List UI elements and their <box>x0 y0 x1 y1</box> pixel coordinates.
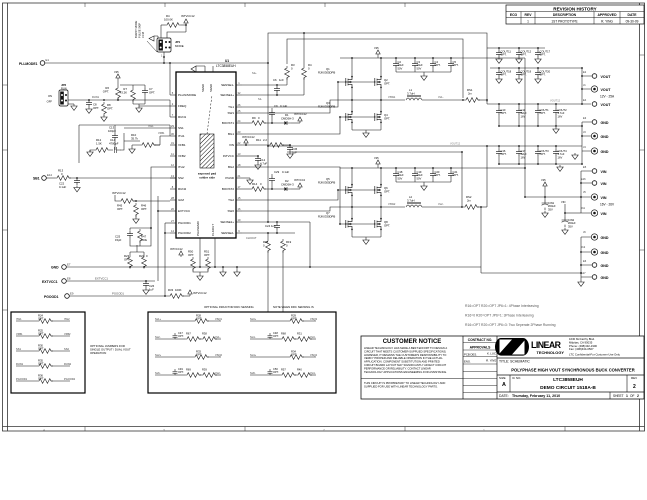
terminal E4 VOUT <box>592 102 597 107</box>
svg-text:OPT.: OPT. <box>384 116 390 120</box>
ground COUT11 <box>496 57 502 63</box>
svg-text:OPT.: OPT. <box>107 106 113 110</box>
wire output top bus A <box>463 47 545 49</box>
svg-text:INTVCC12: INTVCC12 <box>193 291 207 295</box>
ground COUT19 <box>516 77 522 83</box>
svg-text:1.5K: 1.5K <box>96 142 102 146</box>
svg-text:OPT.: OPT. <box>178 334 184 338</box>
svg-text:R16=OPT R20=OPT JP6=1: 4Phase: R16=OPT R20=OPT JP6=1: 4Phase Interleavi… <box>465 304 539 308</box>
svg-text:BOOST2: BOOST2 <box>222 187 235 191</box>
svg-text:16V: 16V <box>521 114 526 118</box>
svg-text:1: 1 <box>527 20 529 24</box>
ground SGND arrow at IC top <box>191 66 205 72</box>
svg-text:ON: ON <box>48 94 52 98</box>
svg-text:PGOOD1: PGOOD1 <box>112 292 124 296</box>
node V25 arrow ph2 <box>376 160 380 166</box>
svg-text:J12: J12 <box>581 245 586 249</box>
svg-text:1uF: 1uF <box>149 287 154 291</box>
zone ticks bottom <box>85 427 565 432</box>
svg-text:16V: 16V <box>558 114 563 118</box>
wire ph2 sense verticals <box>462 152 581 273</box>
svg-text:INTVCC2: INTVCC2 <box>294 178 306 182</box>
wire ITH1 comp loop <box>79 125 170 163</box>
wire VIN terminal bus <box>581 171 592 213</box>
terminal E2 VOUT <box>592 74 597 79</box>
capacitor COUT2 <box>553 108 559 115</box>
svg-text:MODE: MODE <box>175 44 184 48</box>
svg-text:E4: E4 <box>583 98 587 102</box>
svg-text:OPT.: OPT. <box>501 111 507 115</box>
svg-text:VL1-: VL1- <box>215 335 221 339</box>
svg-text:OPT.: OPT. <box>291 317 297 321</box>
svg-text:BURST MODE: BURST MODE <box>134 20 138 38</box>
svg-text:GND: GND <box>601 135 609 139</box>
svg-text:E6: E6 <box>583 259 587 263</box>
svg-text:E3: E3 <box>583 116 587 120</box>
zone ticks left <box>3 85 8 310</box>
svg-text:VOUT12: VOUT12 <box>550 99 561 103</box>
svg-text:Fax: (408)434-0507: Fax: (408)434-0507 <box>569 347 594 351</box>
wire cap gnd bus ph2 <box>396 182 451 184</box>
capacitor COUT4 <box>553 149 559 156</box>
wire VOUT terminal bus <box>582 68 592 104</box>
svg-text:OPT.: OPT. <box>93 106 99 110</box>
wire VIN pin <box>242 144 268 146</box>
pin 13 INTVCC <box>236 155 242 157</box>
ground COUT20 <box>535 77 541 83</box>
svg-text:BOOST1: BOOST1 <box>222 121 235 125</box>
pin 20 EXTVCC <box>170 210 176 212</box>
pin 1 SENSE1- <box>236 84 242 86</box>
approvals column <box>496 336 498 399</box>
pin 27 PGOOD1 <box>170 222 176 224</box>
resistor R68 dcr row <box>270 338 280 340</box>
wire FREQ net <box>120 85 145 106</box>
svg-text:1: 1 <box>626 394 628 398</box>
svg-text:2: 2 <box>637 394 639 398</box>
capacitor C19 <box>412 171 418 178</box>
pin 14 PGOOD2 <box>170 232 176 234</box>
LT logo <box>495 338 529 356</box>
svg-text:APPLICATION. COMPONENT SUBSTIT: APPLICATION. COMPONENT SUBSTITUTION AND … <box>364 360 440 364</box>
svg-text:VL1-: VL1- <box>438 95 444 99</box>
capacitor C10 <box>496 108 502 115</box>
node INTVCC2 for D2 <box>298 183 302 189</box>
terminal J4 GND <box>591 148 597 154</box>
svg-text:VOUT: VOUT <box>601 75 612 79</box>
capacitor C18 <box>393 171 399 178</box>
svg-text:V25: V25 <box>374 46 379 50</box>
node INTVCC12 <box>188 290 192 296</box>
svg-text:REV: REV <box>631 376 637 380</box>
svg-text:CONTRACT NO.: CONTRACT NO. <box>468 338 493 342</box>
zone ticks right <box>640 55 645 340</box>
wire cap bank2 gnd bus <box>499 163 582 165</box>
svg-text:ILIM: ILIM <box>178 198 184 202</box>
ground PGND <box>247 178 253 184</box>
wire GND2 terminal bus <box>581 237 592 277</box>
terminal J3 GND <box>591 133 597 139</box>
sheet border inner bottom <box>3 426 645 428</box>
terminal E6 GND <box>592 263 597 268</box>
svg-text:OPT.: OPT. <box>540 152 546 156</box>
capacitor COUT20 OPT <box>535 70 541 77</box>
capacitor C21 <box>448 171 454 178</box>
svg-text:R. YING: R. YING <box>601 20 613 24</box>
ground fets ph1 <box>363 131 369 137</box>
connector JP1 MODE <box>157 38 171 52</box>
svg-text:CMDSH-3: CMDSH-3 <box>281 182 294 186</box>
svg-text:CLKOUT: CLKOUT <box>211 224 215 236</box>
ground fets ph2 <box>363 238 369 244</box>
pin 13 SS2 <box>170 177 176 179</box>
wire RS2 out <box>477 206 487 208</box>
svg-text:SS1: SS1 <box>16 347 21 351</box>
pin 22 VIN <box>236 144 242 146</box>
svg-text:SL2-: SL2- <box>155 335 161 339</box>
box optional jumpers <box>11 312 85 393</box>
svg-text:TECHNOLOGY APPLICATIONS ENGINE: TECHNOLOGY APPLICATIONS ENGINEERING FOR … <box>364 370 447 374</box>
pin 7 RUN1 <box>170 116 176 118</box>
ground GND2 bus <box>580 277 582 280</box>
pin 31 VFB1 <box>170 144 176 146</box>
ground open arrow JP1 <box>149 36 158 41</box>
svg-text:INTVCC12: INTVCC12 <box>181 14 195 18</box>
svg-text:OPERATION: OPERATION <box>90 351 106 355</box>
ground below R7/C7 <box>136 106 142 112</box>
svg-text:SUPPLIED FOR USE WITH LINEAR T: SUPPLIED FOR USE WITH LINEAR TECHNOLOGY … <box>364 384 438 388</box>
pin 5 PLLIN/MODE <box>170 94 176 96</box>
svg-text:VL3-: VL3- <box>310 335 316 339</box>
svg-text:RJK0305DPB: RJK0305DPB <box>318 180 335 184</box>
svg-text:C29: C29 <box>274 170 280 174</box>
svg-text:POLYPHASE HIGH VOUT SYNCHRONOU: POLYPHASE HIGH VOUT SYNCHRONOUS BUCK CON… <box>511 368 634 373</box>
resistor R57 dcr row <box>270 374 280 376</box>
svg-text:DATE:: DATE: <box>499 394 509 398</box>
svg-text:solder side: solder side <box>199 176 215 180</box>
svg-text:BG2: BG2 <box>228 165 234 169</box>
svg-text:ECO: ECO <box>510 13 518 17</box>
svg-text:PCB DES.: PCB DES. <box>464 352 477 356</box>
svg-text:OPT.: OPT. <box>521 53 527 57</box>
wire SB1 to SS2 <box>69 177 176 179</box>
svg-text:VIN: VIN <box>601 170 607 174</box>
SECTION: left inputs <box>19 14 268 121</box>
wire TG1 gates <box>242 82 375 107</box>
pin 28 ILIM <box>170 199 176 201</box>
svg-text:PGND: PGND <box>225 176 235 180</box>
svg-text:R16=0 R20=OPT JP6=1: 3Phase In: R16=0 R20=OPT JP6=1: 3Phase Interleaving <box>465 314 534 318</box>
sheet border inner right <box>639 3 641 431</box>
svg-text:RUN2: RUN2 <box>178 187 186 191</box>
capacitor C20 <box>430 171 436 178</box>
ground below R8 <box>101 115 107 121</box>
capacitor C4 <box>430 61 436 68</box>
svg-text:INTVCC12: INTVCC12 <box>242 135 255 139</box>
svg-text:SENSE1-: SENSE1- <box>221 83 234 87</box>
svg-text:35.7k: 35.7k <box>131 137 138 141</box>
svg-text:RJK0330DPB: RJK0330DPB <box>318 214 335 218</box>
wire L2 to RS2 <box>422 206 462 208</box>
pin 11 VFB2 <box>170 155 176 157</box>
svg-text:OPTIONAL INDUCTOR DRC SENSING: OPTIONAL INDUCTOR DRC SENSING <box>204 305 254 309</box>
svg-text:OPT.: OPT. <box>540 111 546 115</box>
svg-text:THIS CIRCUIT IS PROPRIETARY TO: THIS CIRCUIT IS PROPRIETARY TO LINEAR TE… <box>364 381 445 385</box>
ground CIN2 <box>562 228 568 234</box>
wire CLKOUT <box>199 266 201 268</box>
svg-text:R11: R11 <box>256 138 261 142</box>
svg-text:50V: 50V <box>417 176 422 180</box>
svg-text:DEMO CIRCUIT 1518A-B: DEMO CIRCUIT 1518A-B <box>540 385 596 391</box>
svg-text:16V - 26V: 16V - 26V <box>600 203 615 207</box>
svg-text:R33: R33 <box>168 288 174 292</box>
svg-text:E1: E1 <box>46 58 50 62</box>
svg-text:VIN: VIN <box>601 196 607 200</box>
svg-text:VFB2: VFB2 <box>178 154 186 158</box>
svg-text:OPT.: OPT. <box>501 73 507 77</box>
ground pair mid <box>223 267 237 270</box>
capacitor COUT3 <box>535 149 541 156</box>
svg-text:CLKOUT: CLKOUT <box>246 236 257 240</box>
svg-text:1nF: 1nF <box>279 78 284 82</box>
svg-text:A: A <box>502 382 506 388</box>
SECTION: phase option notes <box>465 304 556 327</box>
node V25 arrow ph1 <box>376 50 380 56</box>
svg-text:VL4-: VL4- <box>310 371 316 375</box>
wire RS1 to VOUT bus <box>478 99 487 101</box>
svg-text:DESCRIPTION: DESCRIPTION <box>553 13 577 17</box>
svg-text:OPT.: OPT. <box>384 223 390 227</box>
svg-text:OPT.: OPT. <box>141 207 147 211</box>
svg-text:E16: E16 <box>581 177 586 181</box>
terminal E3 GND <box>592 120 597 125</box>
capacitor COUT19 OPT <box>516 70 522 77</box>
svg-text:RJK0305DPB: RJK0305DPB <box>318 70 335 74</box>
svg-text:INTVCC12: INTVCC12 <box>112 191 126 195</box>
svg-text:12V - 25A: 12V - 25A <box>600 95 615 99</box>
svg-text:SENSE2+: SENSE2+ <box>220 220 234 224</box>
SECTION: IC right glue <box>170 104 311 312</box>
svg-text:E7: E7 <box>67 263 71 267</box>
svg-text:INTVCC: INTVCC <box>223 154 235 158</box>
svg-text:LINEAR: LINEAR <box>531 340 562 350</box>
wire JP1 down to PLLMODE net <box>163 52 165 57</box>
svg-text:CMDSH-3: CMDSH-3 <box>281 116 294 120</box>
resistor R40 dcr row <box>294 374 296 376</box>
pin 30 ITH1 <box>170 135 176 137</box>
svg-text:PGOOD1: PGOOD1 <box>44 295 59 299</box>
pin 24 BOOST1 <box>236 122 242 124</box>
svg-text:2.2: 2.2 <box>263 138 267 142</box>
svg-text:VIN: VIN <box>601 182 607 186</box>
svg-text:U1: U1 <box>225 59 229 63</box>
svg-text:E8: E8 <box>67 277 71 281</box>
capacitor C2 <box>393 61 399 68</box>
svg-text:TG2: TG2 <box>228 198 234 202</box>
svg-text:SENSE2-: SENSE2- <box>221 231 234 235</box>
svg-text:E5: E5 <box>583 165 587 169</box>
svg-text:PHASEMD: PHASEMD <box>196 220 200 236</box>
ground at bus <box>572 153 578 159</box>
ground COUT12 <box>516 57 522 63</box>
wire BOOST2 <box>242 188 250 190</box>
svg-text:VIN: VIN <box>229 143 234 147</box>
svg-text:GND: GND <box>601 264 609 268</box>
svg-text:R14: R14 <box>252 182 258 186</box>
capacitor C17 <box>516 149 522 156</box>
svg-text:LTC3858EUH: LTC3858EUH <box>553 377 583 383</box>
svg-text:RUN1: RUN1 <box>16 362 24 366</box>
node INTVCC12 left of R50 <box>179 251 183 257</box>
svg-text:VFB1: VFB1 <box>16 332 23 336</box>
svg-text:EXTVCC: EXTVCC <box>178 209 191 213</box>
capacitor C3 <box>412 61 418 68</box>
svg-text:V25: V25 <box>541 178 546 182</box>
svg-text:PERFORMANCE OR RELIABILITY. CO: PERFORMANCE OR RELIABILITY. CONTACT LINE… <box>364 366 431 370</box>
wire SENSE2- <box>242 232 295 234</box>
svg-text:TECHNOLOGY: TECHNOLOGY <box>537 350 565 355</box>
svg-text:V25: V25 <box>114 70 119 74</box>
svg-text:OPT.: OPT. <box>501 152 507 156</box>
svg-text:TITLE: SCHEMATIC: TITLE: SCHEMATIC <box>499 360 530 364</box>
pin 2 FREQ <box>170 105 176 107</box>
terminal J6 GND <box>591 234 597 240</box>
svg-text:E17: E17 <box>581 271 586 275</box>
svg-text:SL6-: SL6- <box>155 371 161 375</box>
svg-text:VSQ2: VSQ2 <box>215 353 222 357</box>
svg-text:SIZE: SIZE <box>499 376 506 380</box>
svg-text:SGND: SGND <box>209 84 213 92</box>
svg-text:RUN1: RUN1 <box>92 95 100 99</box>
svg-text:VOUT: VOUT <box>601 103 612 107</box>
SECTION: bottom option boxes <box>11 305 336 393</box>
svg-text:SL2+: SL2+ <box>155 353 162 357</box>
svg-text:VFB1: VFB1 <box>158 131 165 135</box>
svg-text:R39: R39 <box>202 368 207 372</box>
wire output bus B <box>490 67 582 69</box>
ground comp <box>90 150 94 152</box>
svg-text:VL2-: VL2- <box>438 202 444 206</box>
svg-text:VL2-: VL2- <box>215 371 221 375</box>
pin 17 BOOST2 <box>236 188 242 190</box>
SECTION: revision history table <box>506 5 644 24</box>
svg-text:R40: R40 <box>297 368 302 372</box>
svg-text:OPT.: OPT. <box>103 89 109 93</box>
svg-text:RJK0330DPB: RJK0330DPB <box>318 104 335 108</box>
svg-text:43.2K: 43.2K <box>120 90 127 94</box>
svg-text:JP2: JP2 <box>61 83 67 87</box>
resistor R39 dcr row <box>199 374 201 376</box>
svg-text:R. YING: R. YING <box>486 359 497 363</box>
terminal E5 VIN <box>592 169 597 174</box>
svg-text:R67: R67 <box>186 332 191 336</box>
svg-text:OPT.: OPT. <box>453 63 459 67</box>
wire PGOOD1 net <box>69 295 168 297</box>
svg-text:0.1uF: 0.1uF <box>280 104 287 108</box>
svg-text:100k: 100k <box>141 238 148 242</box>
terminal J12 GND <box>591 249 597 255</box>
svg-text:4700pF: 4700pF <box>109 142 119 146</box>
wire SENSE1- <box>242 84 287 86</box>
svg-text:VSW1: VSW1 <box>388 95 396 99</box>
svg-text:C9: C9 <box>274 104 278 108</box>
svg-text:LTC3858EUH: LTC3858EUH <box>216 64 236 68</box>
svg-text:SB1: SB1 <box>33 177 40 181</box>
ground R46 <box>133 217 139 223</box>
svg-text:0.1uF: 0.1uF <box>59 185 66 189</box>
sheet border inner left <box>7 3 9 431</box>
svg-text:OPT.: OPT. <box>435 63 441 67</box>
svg-text:CCM: CCM <box>141 32 145 38</box>
SECTION: left compensation + SB1 + lower-left terminals <box>33 124 481 299</box>
svg-text:PGOOD1: PGOOD1 <box>16 377 28 381</box>
svg-text:LTC Confidential-For Customer: LTC Confidential-For Customer Use Only <box>569 353 621 357</box>
pin 26 TG1 <box>236 106 242 108</box>
svg-text:GND: GND <box>51 266 59 270</box>
pin 9 SENSE2- <box>236 232 242 234</box>
svg-text:OPT.: OPT. <box>204 253 210 257</box>
pin 15 TG2 <box>236 199 242 201</box>
wire SW2 <box>242 207 352 211</box>
node INTVCC12 arrow VIN <box>244 139 248 145</box>
svg-text:2m: 2m <box>468 91 473 95</box>
svg-text:ITH1: ITH1 <box>148 124 154 128</box>
capacitor C16 <box>496 149 502 156</box>
svg-text:INTVCC12: INTVCC12 <box>170 247 183 251</box>
svg-text:OPT.: OPT. <box>453 173 459 177</box>
node INTVCC12 for D1 <box>298 117 302 123</box>
wire SENSE1+ <box>242 94 304 96</box>
wire VIN bus vertical <box>525 58 581 197</box>
pin 12 ITH2 <box>170 166 176 168</box>
pin 25 SW1 <box>236 112 242 114</box>
svg-text:PGOOD2: PGOOD2 <box>178 231 191 235</box>
wire BG1 gates <box>242 117 375 134</box>
wire VOUT12 bus <box>268 146 582 152</box>
zone ticks top <box>85 3 405 7</box>
svg-text:SL8-: SL8- <box>250 371 256 375</box>
svg-text:VSW2: VSW2 <box>388 202 396 206</box>
wire GND net <box>66 266 481 268</box>
terminal E16 VIN <box>592 181 597 186</box>
pin 33 SGND top <box>212 66 214 72</box>
wire ITH1/VFB1 to IC <box>124 128 170 145</box>
svg-text:GND: GND <box>601 150 609 154</box>
svg-text:16V: 16V <box>521 155 526 159</box>
svg-text:PULSE SKIP: PULSE SKIP <box>138 23 142 38</box>
wire TG2 gates <box>242 190 375 200</box>
SECTION: title block <box>361 336 644 399</box>
ground caps ph2 <box>421 184 427 190</box>
svg-text:GND: GND <box>601 276 609 280</box>
svg-text:PGOOD1: PGOOD1 <box>178 221 191 225</box>
svg-text:VIN: VIN <box>601 212 607 216</box>
ground JP2 <box>68 103 74 105</box>
pin 29 SS1 <box>170 127 176 129</box>
svg-text:PLLMODE1: PLLMODE1 <box>19 62 38 66</box>
customer notice box <box>462 336 464 399</box>
capacitor COUT1 <box>535 108 541 115</box>
svg-text:CIRCUIT BOARD LAYOUT MAY SIGNI: CIRCUIT BOARD LAYOUT MAY SIGNIFICANTLY A… <box>364 363 447 367</box>
svg-text:3.7uH: 3.7uH <box>407 91 414 95</box>
terminal J5 VIN <box>591 194 597 200</box>
svg-text:R16=OPT R20=OPT JP6=3: Two Sep: R16=OPT R20=OPT JP6=3: Two Seperate 2Pha… <box>465 323 556 327</box>
wire RUN1 net <box>68 99 170 101</box>
wire INTVCC pin <box>242 155 258 157</box>
svg-text:VSQ4: VSQ4 <box>310 353 317 357</box>
svg-text:RUN2: RUN2 <box>64 362 72 366</box>
capacitor C11 <box>516 108 522 115</box>
